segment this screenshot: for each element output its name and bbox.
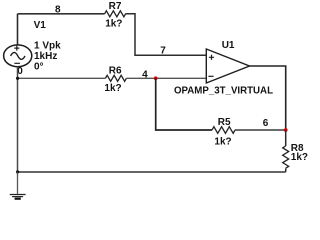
wire: node 0 row from V1 to R6 bbox=[18, 77, 106, 79]
wire: ground rail bbox=[18, 171, 286, 173]
wire: node 4 from R6 to op-amp minus input bbox=[126, 77, 206, 79]
wire: node 4 drop to feedback row bbox=[156, 78, 212, 130]
wire: ground stub bbox=[17, 172, 19, 194]
svg-text:6: 6 bbox=[263, 118, 269, 129]
junction: V1 / R6 row bbox=[16, 77, 19, 80]
junction dot node 4 (red) bbox=[154, 76, 158, 80]
svg-text:4: 4 bbox=[142, 70, 148, 81]
resistor R8 bbox=[283, 143, 308, 168]
svg-text:V1: V1 bbox=[34, 20, 47, 31]
svg-text:0°: 0° bbox=[34, 62, 44, 73]
op-amp U1 bbox=[206, 49, 249, 83]
svg-text:7: 7 bbox=[160, 46, 166, 57]
AC voltage source V1 bbox=[4, 45, 32, 67]
svg-text:1k?: 1k? bbox=[291, 152, 308, 163]
resistor R5 bbox=[212, 117, 235, 148]
svg-text:1k?: 1k? bbox=[214, 136, 231, 147]
svg-text:8: 8 bbox=[55, 5, 61, 16]
V1 value labels bbox=[34, 41, 61, 73]
wire: V1 top stub bbox=[17, 14, 19, 45]
wire: R8 bottom stub to ground rail bbox=[285, 168, 287, 172]
svg-text:U1: U1 bbox=[222, 40, 235, 51]
ground symbol bbox=[10, 195, 26, 199]
resistor R7 bbox=[105, 1, 126, 30]
wire: op-amp output to corner, down to node 6 bbox=[250, 66, 286, 130]
svg-text:R7: R7 bbox=[109, 1, 122, 12]
wire: feedback row right of R5 to node 6 bbox=[235, 129, 286, 131]
wire: V1 bottom down to ground rail bbox=[17, 67, 19, 172]
resistor R6 bbox=[104, 66, 126, 94]
junction dot node 6 (red) bbox=[284, 128, 288, 132]
svg-text:1kHz: 1kHz bbox=[34, 51, 57, 62]
svg-text:R5: R5 bbox=[218, 117, 231, 128]
wire: node 8 from V1 top to R7 bbox=[18, 13, 105, 15]
wire: R8 top stub bbox=[285, 130, 287, 146]
svg-text:R6: R6 bbox=[109, 66, 122, 77]
junction: ground rail / V1 bbox=[16, 170, 19, 173]
svg-text:OPAMP_3T_VIRTUAL: OPAMP_3T_VIRTUAL bbox=[174, 86, 273, 97]
svg-text:1k?: 1k? bbox=[105, 19, 122, 30]
svg-text:1k?: 1k? bbox=[104, 83, 121, 94]
wire: R7 to corner, down to + input row, node 7 bbox=[125, 14, 206, 56]
